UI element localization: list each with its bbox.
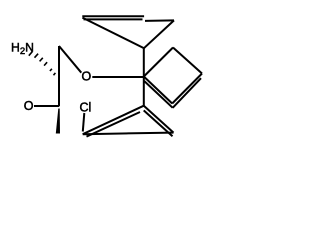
bond: bottom ring BL to V3 C=C double bond, inner line	[87, 112, 141, 137]
bond: node A to node V1	[82, 18, 143, 48]
bond: top ring C=C double bond, inner line	[84, 18, 143, 20]
bond: diamond ring V2 to B, parallel second line	[144, 81, 173, 108]
bond: bottom ring V3 to BR, parallel second line	[144, 110, 173, 136]
bond: top ring C=C double bond, outer line (A to B1)	[82, 15, 144, 17]
solid wedge bond: methyl below C2	[56, 109, 60, 134]
bond: node B1 to node C	[145, 19, 174, 22]
bond: left chain CH2 apex T2 down to carbonyl carbon C2	[58, 46, 60, 106]
bond: Cl to bottom ring node BL	[83, 113, 85, 132]
bond: left oxygen O to C2	[34, 105, 59, 107]
bond: vertical V1 to V3 through spiro node V2	[143, 48, 145, 105]
svg-text:Cl: Cl	[80, 101, 92, 115]
bond: diamond ring T to right corner R	[173, 48, 202, 74]
bond: diamond ring V2 to B, main line	[144, 77, 172, 104]
bond: diamond ring R to B, parallel second line	[173, 78, 201, 108]
bond: T2 to ether oxygen O	[59, 46, 81, 73]
bond: bottom ring V3 to BR, main line	[144, 106, 174, 133]
bond: bottom ring base BL to BR	[83, 133, 174, 135]
bond: ether oxygen O to spiro node V2	[92, 76, 144, 78]
svg-text:O: O	[24, 99, 34, 113]
svg-text:O: O	[82, 69, 92, 83]
bond: diamond ring R to bottom corner B, main line	[172, 74, 202, 104]
bond: node C to node V1	[144, 20, 174, 48]
bond: bottom ring BL to V3 C=C double bond, main line	[83, 106, 144, 135]
hashed wedge bond: stereocenter to NH2 (6 dashes)	[29, 52, 56, 76]
bond: diamond ring V2 to top corner T	[144, 48, 173, 77]
